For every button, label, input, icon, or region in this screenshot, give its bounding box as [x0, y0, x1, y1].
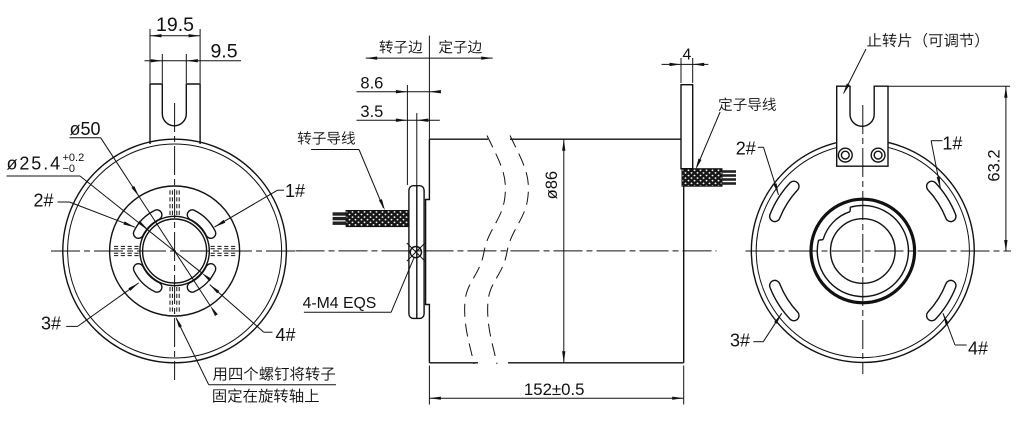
right view: slot 1# arc slot	[927, 181, 956, 221]
svg-text:19.5: 19.5	[156, 14, 194, 36]
right view: horizontal center line	[746, 250, 1012, 252]
left view: slot 2# arc slot	[133, 210, 161, 238]
dimension 9.5 (tab slot width)	[145, 54, 242, 83]
left view: bolt circle dia 50	[110, 186, 240, 316]
left view: slot 1# arc slot	[187, 210, 215, 238]
svg-text:ø50: ø50	[70, 119, 101, 139]
svg-text:1#: 1#	[285, 181, 305, 201]
right view: recess arc	[823, 212, 850, 240]
stator wire bundle	[682, 169, 722, 187]
left view: vertical center line	[174, 103, 176, 380]
right label 1# leader	[931, 141, 942, 189]
svg-text:3#: 3#	[41, 314, 61, 334]
svg-text:4: 4	[683, 47, 692, 64]
left view: M4 screw hole hidden lines (4 places)	[112, 188, 238, 314]
right view: stator housing heavy circle	[811, 199, 915, 303]
right view: inner rim circle	[756, 144, 969, 357]
left view: slot 4# arc slot	[187, 264, 215, 292]
right view: recess jogs	[849, 207, 851, 212]
rotor wire bundle	[346, 211, 408, 227]
svg-text:2#: 2#	[736, 139, 756, 159]
svg-text:−0: −0	[63, 163, 76, 175]
middle view: stator stop pin	[681, 85, 693, 169]
leader stator lead wire	[697, 112, 720, 167]
right label 4# leader	[943, 313, 967, 345]
right label 2# leader	[758, 147, 779, 195]
right view: inner ring with adjustment recess	[817, 205, 908, 296]
right view: outer circle	[751, 140, 974, 363]
svg-text:63.2: 63.2	[986, 149, 1004, 181]
middle view: body bottom edge (with break gap)	[429, 362, 478, 364]
left view: slot 3# arc slot	[133, 264, 161, 292]
dimension 19.5 (tab width)	[150, 29, 200, 83]
leader stop tab (adjustable)	[844, 49, 866, 93]
svg-text:ø25.4: ø25.4	[7, 154, 63, 174]
svg-text:4-M4 EQS: 4-M4 EQS	[303, 295, 377, 312]
label 3# leader	[66, 283, 139, 327]
label 2# leader	[58, 202, 135, 227]
middle view: rotor/stator interface line	[416, 186, 418, 319]
stator wire pigtails	[722, 170, 736, 185]
svg-text:8.6: 8.6	[360, 75, 383, 93]
left view: flange inner rim circle	[68, 144, 282, 358]
right label 3# leader	[753, 313, 781, 341]
right view: slot 4# arc slot	[927, 280, 956, 320]
svg-text:4#: 4#	[276, 325, 296, 345]
right view: bore circle	[831, 219, 896, 284]
right view: slot 2# arc slot	[770, 181, 799, 221]
left view: horizontal center line	[51, 250, 300, 252]
label rotor side	[380, 40, 423, 53]
svg-text:1#: 1#	[942, 134, 962, 154]
label stator side	[439, 40, 482, 54]
right view: slot 3# arc slot	[770, 280, 799, 320]
middle view: body top edge (with break gap)	[429, 138, 488, 140]
label stop tab adjustable	[867, 33, 979, 48]
middle view: break line curve A	[465, 136, 506, 365]
svg-text:152±0.5: 152±0.5	[524, 380, 585, 399]
note text line2	[213, 389, 319, 403]
svg-text:4#: 4#	[968, 339, 988, 359]
middle view: body right edge	[683, 186, 685, 363]
middle view: break line curve B	[488, 136, 529, 365]
rotor wire pigtails	[333, 212, 347, 225]
rotor side / stator side divider and arrows	[366, 36, 493, 140]
dimension 63.2	[888, 86, 1010, 251]
middle view: body left edge with hub recess	[426, 139, 430, 363]
right view: stop tab (adjustable)	[837, 86, 888, 166]
label 1# leader	[215, 190, 285, 227]
leader dia 50	[70, 138, 211, 306]
svg-text:ø86: ø86	[543, 171, 561, 199]
label stator lead wire	[719, 97, 776, 111]
leader 4-M4 EQS	[304, 257, 414, 312]
svg-text:2#: 2#	[34, 191, 54, 211]
right view: vertical center line	[862, 105, 864, 374]
leader rotor lead wire	[311, 150, 384, 209]
svg-text:3#: 3#	[730, 331, 750, 351]
middle view: rotor flange disc	[409, 186, 424, 319]
dimension 8.6	[357, 85, 440, 185]
svg-text:9.5: 9.5	[210, 41, 237, 63]
right view: tab screw right	[871, 148, 885, 162]
left view: bore boss circle	[140, 216, 209, 285]
dimension 3.5	[357, 113, 440, 185]
middle view: center line	[296, 250, 717, 252]
left view: bore circle dia 25.4	[143, 219, 207, 283]
left view: flange outer circle	[63, 139, 287, 363]
note text line1	[213, 367, 335, 381]
dimension dia 86	[563, 139, 565, 363]
left view: rotor tab outline	[150, 84, 200, 144]
dimension 152±0.5	[429, 366, 683, 405]
middle view: M4 screw symbol	[410, 247, 421, 258]
note leader: fix rotor with four screws	[176, 319, 336, 385]
right view: tab screw left	[838, 148, 852, 162]
leader dia 25.4 +0.2/-0	[7, 176, 202, 273]
label 4# leader	[210, 285, 273, 333]
svg-text:3.5: 3.5	[360, 103, 383, 121]
label rotor lead wire	[298, 131, 355, 144]
dimension 4 (pin width)	[662, 58, 709, 83]
